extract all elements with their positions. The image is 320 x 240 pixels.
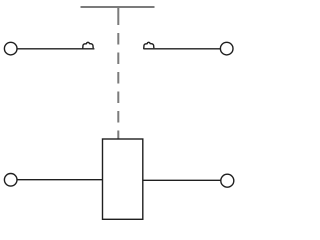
wire top-right	[143, 48, 220, 50]
mechanical linkage dashed line	[117, 33, 119, 139]
terminal T4 (bottom-right)	[221, 174, 234, 187]
coil K1 (rectangle)	[103, 139, 143, 219]
armature bar (top T)	[81, 7, 155, 25]
terminal T3 (bottom-left)	[4, 174, 17, 187]
terminal T1 (top-left)	[4, 42, 17, 55]
terminal T2 (top-right)	[220, 42, 233, 55]
contact K1a hump (left)	[83, 42, 94, 49]
wire bottom-right	[143, 179, 221, 181]
wire bottom-left	[17, 179, 102, 181]
contact K1b hump (right)	[144, 42, 154, 49]
wire top-left	[17, 48, 94, 50]
